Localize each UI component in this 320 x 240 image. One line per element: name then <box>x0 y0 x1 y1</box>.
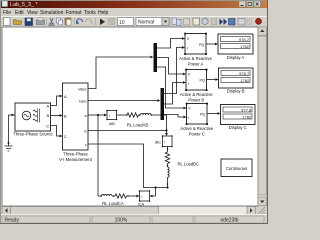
vsb thumb <box>258 36 267 195</box>
RL LoadCA inductor <box>98 194 140 198</box>
app icon <box>2 1 8 7</box>
svg-text:Power C: Power C <box>189 131 205 136</box>
hsb right button <box>247 207 256 215</box>
svg-text:Power A: Power A <box>188 61 204 66</box>
toolbar red icon <box>256 18 262 24</box>
wire power B PQ to display B <box>207 78 219 81</box>
toolbar mode combobox <box>136 18 162 26</box>
svg-text:978.7: 978.7 <box>239 71 250 76</box>
svg-text:Continuous: Continuous <box>226 166 247 171</box>
toolbar stop icon (disabled) <box>109 19 115 25</box>
svg-text:IBC: IBC <box>155 141 161 145</box>
RL LoadBC resistor vertical <box>165 147 169 188</box>
three-phase VI measurement block <box>63 83 89 150</box>
svg-text:Ready: Ready <box>5 218 20 224</box>
wire power C PQ to display C <box>207 112 221 115</box>
svg-text:978.7: 978.7 <box>239 37 250 42</box>
toolbar redo icon (disabled) <box>85 19 91 24</box>
toolbar print icon <box>37 20 45 25</box>
window outer border <box>1 1 268 224</box>
wire demux1 out3 to power C V input <box>157 67 183 108</box>
svg-text:PQ: PQ <box>200 112 205 116</box>
svg-text:I: I <box>187 46 188 50</box>
wire demux1 out2 to power B V input <box>157 58 183 75</box>
maximize button <box>247 1 254 7</box>
status bar <box>1 215 267 225</box>
svg-text:PQ: PQ <box>199 43 204 47</box>
display B <box>219 68 254 88</box>
svg-text:B: B <box>47 113 50 118</box>
current measurement IBC <box>162 135 173 147</box>
svg-text:Active & Reactive: Active & Reactive <box>179 56 212 61</box>
demux2 Iabc <box>161 88 165 120</box>
resize grip <box>257 207 265 215</box>
svg-text:ICA: ICA <box>138 203 145 207</box>
wire source C to VI C <box>51 126 60 137</box>
node phase a junction <box>97 114 99 116</box>
svg-text:View: View <box>27 10 38 16</box>
RL LoadCA resistor <box>112 195 115 197</box>
svg-text:977.8: 977.8 <box>241 107 252 112</box>
wire phase a to IAB <box>88 114 107 196</box>
toolbar navy icons <box>220 19 224 26</box>
svg-text:Active & Reactive: Active & Reactive <box>180 92 213 97</box>
toolbar new icon <box>4 18 11 26</box>
svg-text:RL LoadBC: RL LoadBC <box>178 161 200 166</box>
svg-text:Active & Reactive: Active & Reactive <box>180 126 213 131</box>
svg-text:1782: 1782 <box>240 78 250 83</box>
svg-text:B: B <box>64 113 67 118</box>
wire demux2 out3 to power C I input <box>164 115 183 118</box>
power block B <box>185 69 207 91</box>
RL LoadAB inductor <box>139 114 141 116</box>
svg-text:Normal: Normal <box>138 20 154 26</box>
ground symbol <box>5 146 13 151</box>
minimize button <box>239 1 246 7</box>
status panel empty <box>152 216 193 223</box>
wire demux2 out1 to power A I input <box>164 48 182 94</box>
wire into IBC top <box>166 131 168 134</box>
wire demux1 out1 to power A V input <box>157 37 187 118</box>
svg-text:Display B: Display B <box>227 89 245 94</box>
svg-text:C: C <box>46 123 49 128</box>
svg-text:Three-Phase: Three-Phase <box>63 152 88 157</box>
power block A <box>184 33 207 55</box>
toolbar separators <box>46 18 48 26</box>
canvas border <box>2 27 258 206</box>
power block C <box>186 103 208 125</box>
svg-text:Power B: Power B <box>188 97 204 102</box>
status panel zoom <box>92 216 150 223</box>
svg-text:Display A: Display A <box>227 55 245 60</box>
svg-text:Vabc: Vabc <box>78 86 87 91</box>
ground wire <box>9 115 15 146</box>
toolbar save icon <box>25 18 33 26</box>
vsb up button <box>258 27 267 36</box>
svg-text:C: C <box>64 134 67 139</box>
RL LoadAB resistor <box>117 113 167 131</box>
toolbar copy icon <box>57 18 61 23</box>
current measurement ICA <box>139 190 151 202</box>
hsb left button <box>2 207 11 215</box>
svg-text:File: File <box>3 10 11 16</box>
toolbar <box>1 16 267 27</box>
wire Vabc to demux1 <box>88 56 160 102</box>
wire source B to VI B <box>51 115 60 117</box>
hsb thumb <box>11 207 159 215</box>
wire demux2 out2 to power B I input <box>164 83 183 105</box>
svg-text:ode23tb: ode23tb <box>220 218 238 224</box>
toolbar right icon group <box>172 18 177 25</box>
horizontal scrollbar <box>2 207 256 215</box>
current measurement IAB <box>106 110 117 121</box>
svg-text:I: I <box>188 116 189 120</box>
svg-text:Lab_5_3_ *: Lab_5_3_ * <box>10 2 38 8</box>
RL LoadBC inductor vertical <box>167 164 169 168</box>
menu bar <box>1 8 267 16</box>
wire power A PQ to display A <box>206 43 218 46</box>
svg-text:IAB: IAB <box>109 122 115 126</box>
svg-text:PQ: PQ <box>199 78 204 82</box>
svg-text:V-I Measurement: V-I Measurement <box>59 157 93 162</box>
svg-text:A: A <box>47 103 50 108</box>
wire phase a down to CA load <box>97 115 99 196</box>
svg-text:1782: 1782 <box>242 114 252 119</box>
vsb down button <box>258 197 267 206</box>
display A <box>218 34 253 54</box>
status panel solver <box>195 216 264 223</box>
svg-text:Tools: Tools <box>84 10 96 16</box>
three-phase source block Three-Phase Source <box>15 103 51 131</box>
svg-text:c: c <box>85 143 87 147</box>
close button <box>254 1 261 7</box>
toolbar paste icon <box>65 18 71 25</box>
wire source A to VI A <box>51 95 63 138</box>
svg-text:Format: Format <box>66 10 82 16</box>
svg-text:A: A <box>64 94 67 99</box>
powergui block Continuous <box>221 159 252 177</box>
svg-text:1782: 1782 <box>240 44 250 49</box>
demux1 Vabc <box>154 43 158 72</box>
svg-text:Iabc: Iabc <box>79 99 86 104</box>
vertical scrollbar <box>258 27 267 206</box>
wire phase b <box>88 129 168 136</box>
title bar <box>1 0 267 8</box>
toolbar open icon <box>14 20 22 25</box>
svg-text:RL LoadCA: RL LoadCA <box>102 201 124 206</box>
toolbar cut icon <box>50 18 53 24</box>
svg-text:Simulation: Simulation <box>40 10 64 16</box>
svg-text:Three-Phase Source: Three-Phase Source <box>13 132 53 137</box>
wire LoadAB to phase b node <box>158 115 167 131</box>
wire Iabc to demux2 <box>88 100 157 102</box>
svg-text:RL LoadAB: RL LoadAB <box>127 123 148 128</box>
wire arrow into source N port <box>12 114 15 117</box>
wire phase c <box>88 144 169 197</box>
svg-text:Help: Help <box>98 10 109 16</box>
svg-text:100%: 100% <box>115 218 128 224</box>
toolbar play icon <box>100 19 105 26</box>
node phase b junction <box>165 129 167 131</box>
node phase c junction <box>154 186 156 188</box>
toolbar undo icon <box>77 19 83 24</box>
svg-text:10: 10 <box>119 20 125 26</box>
wire branch to ICA right port <box>153 188 156 197</box>
svg-text:I: I <box>188 82 189 86</box>
svg-text:Display C: Display C <box>229 125 247 130</box>
ground node dot <box>8 142 10 144</box>
window background <box>0 0 268 224</box>
svg-text:b: b <box>84 129 86 133</box>
display C <box>221 105 256 125</box>
status panel Ready <box>2 216 90 223</box>
toolbar sim time edit box <box>118 18 134 26</box>
svg-text:Edit: Edit <box>15 10 24 16</box>
